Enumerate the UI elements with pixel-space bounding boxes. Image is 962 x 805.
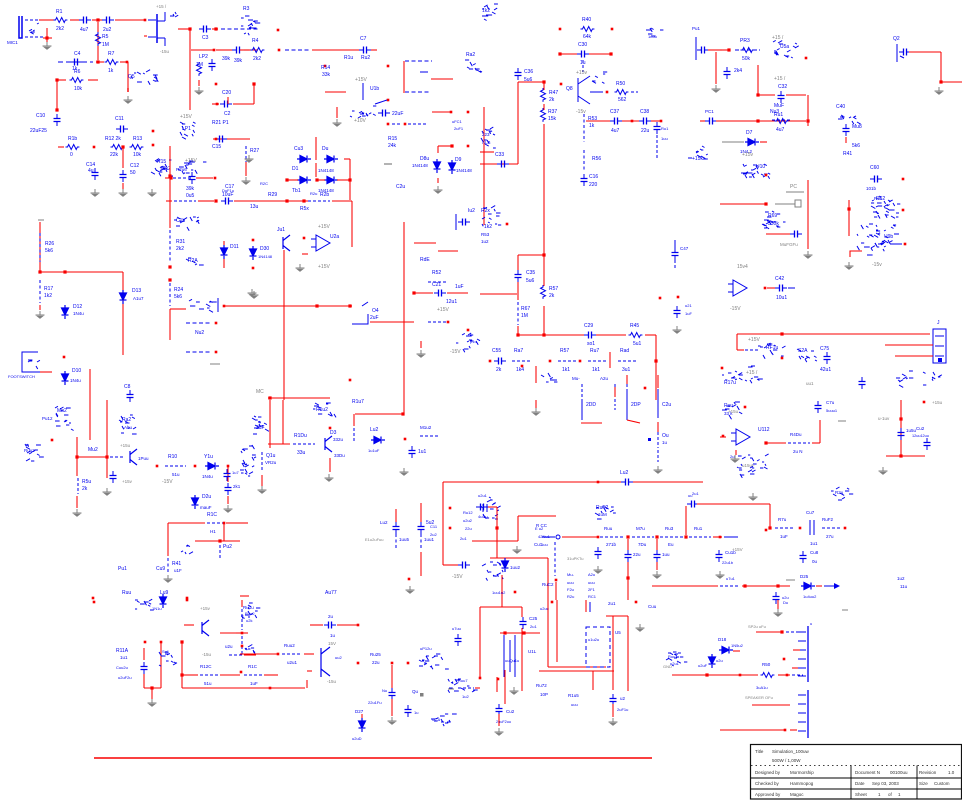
wire [807, 121, 809, 126]
capacitor C43 [595, 547, 602, 559]
wire [756, 631, 782, 633]
wire [437, 146, 439, 153]
svg-text:R2u: R2u [835, 490, 844, 495]
svg-text:Revision: Revision [919, 770, 937, 775]
svg-text:Ru1: Ru1 [661, 126, 669, 131]
node [479, 677, 482, 680]
svg-text:Ru1u: Ru1u [243, 605, 254, 610]
svg-text:VR2u: VR2u [265, 460, 277, 465]
blue wire [245, 146, 247, 162]
wire [700, 120, 706, 122]
node [721, 367, 724, 370]
transistor Q10 [202, 620, 209, 636]
component cluster [241, 603, 260, 619]
wire [807, 180, 809, 249]
node [467, 111, 470, 114]
capacitor C36 [515, 68, 522, 80]
wire [483, 107, 485, 200]
svg-text:22uF: 22uF [392, 111, 403, 117]
component cluster [592, 72, 607, 83]
wire [517, 82, 519, 164]
svg-text:Cu9: Cu9 [156, 566, 165, 572]
wire [645, 334, 656, 336]
capacitor [189, 172, 196, 184]
svg-text:R50: R50 [762, 662, 771, 667]
wire [443, 481, 480, 483]
node junction [939, 80, 942, 83]
resistor R50 [615, 90, 629, 95]
wire [395, 509, 397, 522]
svg-text:Mu2: Mu2 [57, 408, 67, 414]
wire [442, 482, 444, 565]
wire [227, 466, 229, 482]
svg-text:Ru1: Ru1 [694, 526, 703, 531]
wire [43, 37, 52, 39]
node [447, 321, 450, 324]
svg-text:22u1b: 22u1b [722, 560, 734, 565]
wire [589, 53, 612, 55]
wire [543, 104, 545, 110]
component cluster [419, 654, 449, 669]
svg-text:5k6: 5k6 [45, 248, 53, 254]
connector pin [798, 721, 806, 723]
svg-text:12uu12uu: 12uu12uu [912, 434, 929, 438]
svg-text:R10: R10 [168, 454, 177, 460]
node junction [315, 178, 318, 181]
node [506, 223, 509, 226]
ground [406, 586, 415, 593]
svg-text:uP12u: uP12u [420, 646, 432, 651]
node junction [806, 119, 809, 122]
blue wire [896, 44, 898, 62]
connector pin [798, 712, 806, 714]
capacitor [70, 59, 82, 66]
ground [195, 87, 204, 94]
wire [46, 28, 48, 42]
node [450, 111, 453, 114]
wire [742, 585, 790, 587]
svg-text:+15v: +15v [200, 606, 211, 611]
node junction [188, 27, 191, 30]
wire [488, 506, 497, 508]
capacitor C49 [654, 122, 661, 134]
wire [716, 120, 806, 122]
wire [240, 49, 249, 51]
svg-text:1u1: 1u1 [120, 655, 128, 660]
capacitor C58 [455, 634, 462, 646]
svg-text:Du: Du [322, 146, 329, 152]
capacitor [120, 170, 127, 182]
wire [850, 251, 862, 257]
blue wire [695, 37, 697, 60]
node [144, 19, 147, 22]
node [329, 427, 332, 430]
node junction [654, 359, 657, 362]
svg-text:1uu: 1uu [662, 552, 670, 557]
svg-text:Cuu2u: Cuu2u [116, 665, 128, 670]
ground [43, 42, 52, 49]
wire [432, 111, 452, 113]
node [160, 641, 163, 644]
wire [89, 369, 91, 400]
svg-text:2k: 2k [549, 97, 555, 103]
wire [57, 79, 66, 81]
svg-text:LP1: LP1 [182, 126, 191, 132]
wire [240, 687, 305, 689]
svg-text:4u7: 4u7 [611, 128, 620, 134]
wire [535, 366, 537, 383]
capacitor C8 [127, 390, 134, 402]
svg-text:D11: D11 [230, 244, 239, 250]
blue wire [420, 534, 422, 550]
blue wire [58, 61, 93, 63]
svg-text:1k1: 1k1 [562, 367, 570, 373]
svg-text:Ruu2: Ruu2 [284, 643, 295, 648]
svg-text:+15V: +15V [355, 77, 367, 83]
svg-text:U1b: U1b [370, 86, 379, 92]
capacitor C52 [924, 438, 931, 450]
component cluster [481, 127, 496, 148]
node [324, 65, 327, 68]
blue wire [582, 60, 584, 72]
node [407, 662, 410, 665]
wire [543, 124, 545, 200]
capacitor C31 [697, 47, 709, 54]
blue wire [219, 545, 221, 560]
node junction [168, 174, 171, 177]
wire [144, 35, 147, 37]
node junction [75, 455, 78, 458]
node [152, 130, 155, 133]
blue wire [405, 91, 430, 93]
blue wire [455, 214, 457, 230]
blue wire [631, 91, 638, 93]
capacitor C37 [610, 118, 622, 125]
svg-text:2k2: 2k2 [56, 26, 64, 32]
capacitor C75 [824, 352, 831, 364]
svg-text:D18: D18 [718, 637, 727, 642]
wire [370, 321, 414, 323]
capacitor [102, 17, 114, 24]
node [644, 387, 647, 390]
blue wire [626, 384, 628, 400]
capacitor C23 [110, 471, 117, 483]
svg-text:C36: C36 [524, 69, 533, 75]
capacitor C9 [378, 110, 390, 117]
node [722, 435, 725, 438]
component cluster [741, 164, 770, 179]
svg-text:1u1: 1u1 [810, 541, 818, 546]
svg-text:R5: R5 [102, 34, 109, 40]
svg-text:39k: 39k [186, 186, 195, 192]
svg-text:Ru72: Ru72 [536, 683, 547, 688]
node [786, 674, 789, 677]
svg-text:u-1uv: u-1uv [878, 416, 890, 421]
wire [475, 687, 480, 689]
svg-text:D3: D3 [330, 430, 337, 436]
wire [685, 506, 687, 535]
wire [596, 334, 626, 336]
transistor Q3 [325, 436, 332, 452]
wire [518, 515, 556, 517]
svg-text:Mu-: Mu- [567, 572, 575, 577]
wire [627, 539, 629, 550]
wire [220, 540, 240, 542]
component cluster [838, 115, 861, 124]
node junction [214, 199, 217, 202]
wire [895, 355, 933, 357]
svg-text:2u1: 2u1 [692, 491, 699, 496]
wire [543, 306, 545, 335]
title block col line [851, 766, 917, 800]
svg-text:Custom: Custom [934, 781, 950, 786]
wire [169, 200, 171, 228]
blue wire [353, 428, 355, 442]
svg-text:1uF: 1uF [780, 534, 788, 539]
blue wire [420, 71, 428, 73]
wire [283, 250, 285, 400]
svg-text:C47: C47 [680, 246, 689, 251]
svg-text:D1: D1 [292, 166, 299, 172]
svg-text:R12 2k: R12 2k [105, 136, 121, 142]
ground [495, 728, 504, 735]
wire [652, 585, 718, 587]
wire [713, 536, 722, 538]
svg-text:+15V: +15V [318, 224, 330, 230]
wire [325, 91, 346, 93]
node [144, 641, 147, 644]
ground [242, 177, 251, 184]
component cluster [431, 714, 457, 726]
node junction [348, 304, 351, 307]
wire [168, 522, 205, 524]
svg-text:1N4u: 1N4u [70, 378, 81, 383]
blue wire [809, 520, 811, 535]
svg-text:R4: R4 [252, 38, 259, 44]
svg-text:+10V: +10V [354, 118, 366, 124]
node [186, 597, 189, 600]
svg-text:R1Du: R1Du [294, 433, 307, 439]
IC block U5 [586, 627, 610, 667]
wire [127, 88, 129, 92]
svg-text:MIC1: MIC1 [7, 40, 18, 45]
svg-text:2k: 2k [496, 367, 502, 373]
svg-text:C10: C10 [36, 113, 45, 119]
capacitor C45 [654, 550, 661, 562]
svg-text:Q5: Q5 [128, 74, 135, 80]
wire [240, 595, 249, 597]
svg-text:C38: C38 [640, 109, 649, 115]
blue wire [590, 91, 603, 93]
wire [182, 687, 240, 689]
svg-text:R37: R37 [548, 109, 557, 115]
node [215, 138, 218, 141]
wire [447, 292, 468, 294]
blue wire [772, 119, 790, 121]
node junction [780, 630, 783, 633]
svg-text:PC: PC [790, 184, 797, 190]
wire [720, 674, 758, 676]
capacitor C60 [870, 176, 882, 183]
capacitor C41 [790, 231, 802, 238]
svg-text:Cu8: Cu8 [810, 550, 819, 555]
svg-text:R1u5: R1u5 [568, 693, 579, 698]
svg-text:R41: R41 [172, 561, 181, 567]
svg-text:31uPKTu: 31uPKTu [567, 556, 584, 561]
svg-text:-15V: -15V [162, 479, 173, 485]
wire [223, 259, 225, 268]
blue wire [486, 504, 488, 512]
transistor Q1 [156, 14, 158, 43]
node [216, 103, 219, 106]
svg-text:C8: C8 [124, 384, 131, 390]
wire [438, 250, 458, 252]
svg-text:1k2: 1k2 [484, 224, 492, 230]
resistor [96, 32, 101, 46]
node [408, 578, 411, 581]
svg-text:1k2: 1k2 [44, 293, 52, 299]
component cluster [797, 349, 817, 362]
wire [940, 52, 942, 82]
svg-text:R57: R57 [560, 348, 569, 354]
wire [793, 649, 800, 651]
connector pin [798, 703, 806, 705]
resistor [111, 145, 125, 150]
node [449, 527, 452, 530]
wire [581, 422, 602, 424]
wire [181, 641, 183, 688]
resistor [70, 78, 84, 83]
wire [226, 305, 240, 307]
component cluster [831, 487, 853, 500]
capacitor C51 [898, 428, 905, 440]
wire [76, 496, 78, 508]
node junction [218, 539, 221, 542]
svg-text:C32: C32 [778, 84, 787, 90]
blue wire [352, 314, 368, 324]
blue wire [890, 243, 902, 245]
node [606, 91, 609, 94]
svg-text:u2u: u2u [225, 644, 233, 649]
blue wire [169, 283, 171, 306]
node junction [121, 145, 124, 148]
svg-text:uFC1: uFC1 [452, 119, 463, 124]
node junction [268, 396, 271, 399]
node [739, 674, 742, 677]
svg-text:uu2: uu2 [335, 655, 342, 660]
node junction [542, 80, 545, 83]
node junction [516, 333, 519, 336]
component cluster [240, 445, 256, 476]
capacitor C16 [581, 174, 588, 186]
wire [213, 138, 228, 140]
wire [521, 607, 523, 617]
svg-text:E1u2uFuu: E1u2uFuu [365, 537, 383, 542]
svg-text:39k: 39k [234, 58, 243, 64]
svg-text:223: 223 [482, 132, 490, 137]
wire [56, 80, 58, 110]
component cluster [745, 366, 763, 383]
resistor [130, 145, 144, 150]
component cluster [448, 679, 478, 693]
ground [388, 717, 397, 724]
svg-text:1N4u: 1N4u [73, 311, 84, 316]
node junction [727, 48, 730, 51]
svg-text:Ruu1: Ruu1 [668, 654, 678, 659]
wire [122, 148, 124, 168]
wire [76, 437, 78, 457]
node [467, 145, 470, 148]
wire [391, 699, 393, 716]
svg-text:2k1: 2k1 [233, 484, 241, 489]
svg-text:Simulation_100uw: Simulation_100uw [772, 749, 810, 754]
svg-text:271b: 271b [606, 542, 617, 547]
wire [282, 400, 284, 444]
svg-text:Sheet: Sheet [855, 792, 868, 797]
svg-text:C11: C11 [115, 116, 124, 122]
node [387, 123, 390, 126]
svg-text:+15 /: +15 / [746, 370, 758, 376]
wire [480, 293, 517, 295]
connector J2 [933, 329, 946, 363]
capacitor C53b [687, 501, 699, 508]
wire [318, 179, 325, 181]
svg-text:Mormorship: Mormorship [790, 770, 814, 775]
node [241, 632, 244, 635]
wire [560, 53, 577, 55]
connector pin [798, 730, 806, 732]
ground [594, 566, 603, 573]
svg-text:1u5u: 1u5u [648, 34, 657, 39]
wire [122, 183, 124, 190]
zener D24 [192, 495, 199, 509]
svg-text:2uF1: 2uF1 [454, 126, 464, 131]
svg-text:R15: R15 [388, 136, 397, 142]
wire [539, 670, 614, 672]
svg-text:1u2: 1u2 [897, 576, 905, 581]
node junction [655, 535, 658, 538]
svg-text:R1u: R1u [344, 55, 353, 61]
node junction [169, 176, 172, 179]
blue wire [509, 640, 511, 672]
node [63, 356, 66, 359]
node [357, 662, 360, 665]
svg-text:C2u: C2u [662, 402, 671, 408]
svg-text:Size: Size [919, 781, 928, 786]
diode D3 [297, 177, 311, 184]
svg-text:C25: C25 [529, 616, 538, 621]
svg-text:R57: R57 [549, 286, 558, 292]
ground [654, 466, 663, 473]
node [765, 174, 768, 177]
capacitor [220, 101, 232, 108]
svg-text:Rad: Rad [620, 348, 629, 354]
svg-text:22u: 22u [641, 128, 650, 134]
node junction [285, 178, 288, 181]
svg-text:+15 /: +15 / [156, 4, 167, 9]
ground [716, 571, 725, 578]
svg-text:U5: U5 [615, 630, 621, 635]
svg-text:GND: GND [663, 664, 672, 669]
capacitor C19 [458, 219, 470, 226]
node [799, 527, 802, 530]
svg-text:R6: R6 [74, 69, 81, 75]
component cluster [482, 206, 501, 227]
ground [513, 546, 522, 553]
blue node [648, 438, 651, 441]
svg-text:1u4uu2: 1u4uu2 [803, 594, 817, 599]
zener D13 [120, 290, 127, 304]
